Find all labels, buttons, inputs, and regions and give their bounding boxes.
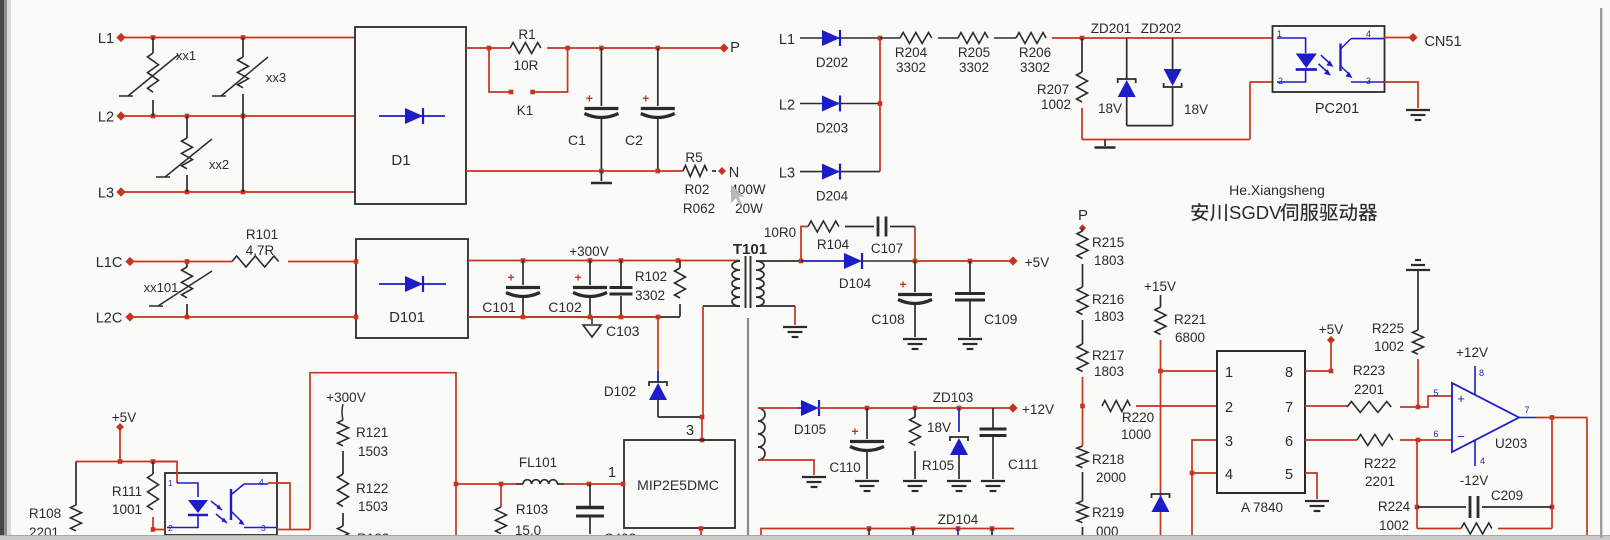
svg-text:D102: D102 [604,384,636,399]
svg-text:C102: C102 [548,299,582,315]
svg-text:10R: 10R [514,58,539,73]
svg-text:10R0: 10R0 [764,225,796,240]
svg-text:R223: R223 [1353,363,1385,378]
svg-text:7: 7 [1285,400,1293,416]
svg-text:L2: L2 [98,110,114,126]
svg-text:xx2: xx2 [209,157,229,172]
svg-text:1: 1 [1225,365,1233,381]
svg-text:R219: R219 [1092,505,1124,520]
svg-text:18V: 18V [1098,101,1122,116]
svg-text:L1: L1 [779,32,795,48]
svg-text:1001: 1001 [112,502,142,517]
svg-text:R102: R102 [635,269,667,284]
svg-text:D101: D101 [389,309,425,326]
svg-text:3: 3 [1366,76,1371,86]
svg-text:18V: 18V [1184,102,1208,117]
svg-text:R220: R220 [1122,410,1154,425]
svg-text:R224: R224 [1378,499,1411,514]
svg-text:R104: R104 [817,237,850,252]
svg-text:xx101: xx101 [144,280,179,295]
svg-text:R1: R1 [518,27,535,42]
svg-text:C2: C2 [625,132,643,148]
svg-text:1: 1 [168,478,173,488]
svg-text:7: 7 [1524,405,1529,415]
svg-text:L1C: L1C [96,255,123,271]
svg-text:R217: R217 [1092,348,1124,363]
svg-text:SGDV: SGDV [1229,202,1282,223]
svg-text:D105: D105 [794,422,826,437]
svg-text:8: 8 [1479,368,1484,378]
svg-text:3302: 3302 [635,288,665,303]
svg-text:ZD103: ZD103 [933,390,974,405]
svg-text:D104: D104 [839,276,872,291]
svg-text:N: N [729,165,739,181]
svg-text:R216: R216 [1092,292,1124,307]
svg-text:C209: C209 [1491,488,1523,503]
svg-text:R111: R111 [112,484,142,499]
svg-text:C109: C109 [984,311,1018,327]
svg-text:+5V: +5V [1025,255,1049,270]
svg-text:L2C: L2C [96,311,123,327]
svg-text:5: 5 [1433,388,1438,398]
svg-text:1803: 1803 [1094,253,1124,268]
svg-text:6800: 6800 [1175,330,1205,345]
svg-text:R5: R5 [685,150,702,165]
svg-text:R221: R221 [1174,312,1206,327]
svg-text:5: 5 [1285,467,1293,483]
svg-text:xx3: xx3 [266,70,286,85]
svg-text:+: + [586,92,593,106]
svg-text:3: 3 [686,423,694,439]
svg-text:6: 6 [1433,429,1438,439]
svg-text:3302: 3302 [959,60,989,75]
svg-text:-12V: -12V [1460,473,1489,488]
svg-text:C1: C1 [568,132,586,148]
svg-text:D1: D1 [391,152,410,169]
svg-text:+: + [642,92,649,106]
svg-text:R108: R108 [29,506,61,521]
svg-text:4: 4 [1366,29,1371,39]
svg-text:C107: C107 [871,241,903,256]
svg-text:−: − [1457,429,1465,444]
svg-text:C111: C111 [1008,457,1038,472]
svg-text:L3: L3 [98,186,114,202]
svg-text:D203: D203 [816,121,848,136]
svg-text:+5V: +5V [112,410,136,425]
svg-text:R02: R02 [685,182,710,197]
svg-text:C108: C108 [871,311,905,327]
svg-text:C110: C110 [829,460,860,475]
svg-text:L2: L2 [779,98,795,114]
svg-text:xx1: xx1 [176,48,196,63]
svg-text:R103: R103 [516,502,548,517]
svg-text:+: + [507,271,514,285]
svg-text:6: 6 [1285,434,1293,450]
svg-text:1002: 1002 [1379,518,1409,533]
svg-text:2000: 2000 [1096,470,1126,485]
svg-text:2: 2 [1278,76,1283,86]
svg-text:2201: 2201 [1365,474,1395,489]
svg-text:4: 4 [1480,456,1485,466]
svg-text:CN51: CN51 [1424,34,1461,50]
svg-text:1000: 1000 [1121,427,1151,442]
svg-text:+: + [899,278,906,292]
svg-text:R204: R204 [895,45,928,60]
svg-text:D204: D204 [816,189,849,204]
svg-text:K1: K1 [517,103,534,118]
svg-text:P: P [1078,207,1088,224]
svg-text:+: + [851,425,858,439]
svg-text:1002: 1002 [1374,339,1404,354]
svg-text:+15V: +15V [1144,279,1176,294]
svg-text:FL101: FL101 [519,455,557,470]
svg-text:4.7R: 4.7R [246,243,275,258]
svg-text:8: 8 [1285,365,1293,381]
svg-text:R122: R122 [356,481,388,496]
svg-text:1002: 1002 [1041,97,1071,112]
svg-text:He.Xiangsheng: He.Xiangsheng [1229,182,1325,198]
svg-text:R206: R206 [1019,45,1051,60]
svg-text:1: 1 [608,465,616,481]
svg-text:+5V: +5V [1319,322,1343,337]
svg-text:R105: R105 [922,458,954,473]
svg-text:1503: 1503 [358,444,388,459]
svg-text:L3: L3 [779,166,795,182]
svg-text:2201: 2201 [1354,382,1384,397]
svg-text:1503: 1503 [358,499,388,514]
svg-text:PC201: PC201 [1315,101,1359,117]
svg-text:U203: U203 [1495,436,1527,451]
svg-text:T101: T101 [733,241,767,258]
svg-text:1803: 1803 [1094,309,1124,324]
svg-text:L1: L1 [98,31,114,47]
svg-text:18V: 18V [927,420,951,435]
svg-text:ZD104: ZD104 [938,512,979,527]
svg-text:3: 3 [1225,434,1233,450]
svg-text:+300V: +300V [569,244,608,259]
svg-text:R121: R121 [356,425,388,440]
svg-text:R205: R205 [958,45,990,60]
svg-text:A 7840: A 7840 [1241,500,1283,515]
svg-text:P: P [730,40,740,56]
svg-text:C101: C101 [482,299,516,315]
svg-text:3302: 3302 [896,60,926,75]
svg-text:R225: R225 [1372,321,1404,336]
svg-text:+12V: +12V [1456,345,1488,360]
svg-text:R101: R101 [246,227,278,242]
svg-text:4: 4 [1225,467,1233,483]
svg-text:R062: R062 [683,201,715,216]
svg-text:MIP2E5DMC: MIP2E5DMC [637,477,719,493]
svg-text:+12V: +12V [1022,402,1054,417]
svg-text:2: 2 [1225,400,1233,416]
svg-text:3302: 3302 [1020,60,1050,75]
svg-text:4: 4 [259,477,264,487]
svg-text:R207: R207 [1037,82,1069,97]
svg-text:R222: R222 [1364,456,1396,471]
svg-text:C103: C103 [606,323,640,339]
svg-text:+: + [574,271,581,285]
svg-text:R218: R218 [1092,452,1124,467]
svg-text:1803: 1803 [1094,364,1124,379]
svg-text:R215: R215 [1092,235,1124,250]
svg-text:ZD201: ZD201 [1091,21,1132,36]
svg-text:+300V: +300V [326,390,365,405]
svg-text:ZD202: ZD202 [1141,21,1182,36]
svg-text:D202: D202 [816,55,848,70]
svg-text:+: + [1457,391,1465,406]
